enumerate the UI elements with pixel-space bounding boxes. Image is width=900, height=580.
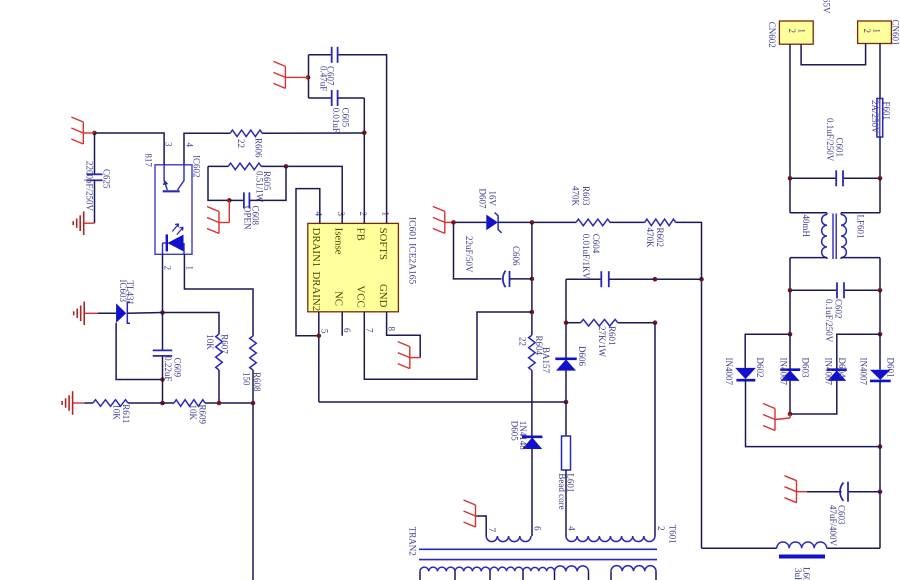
- svg-text:0.47uF: 0.47uF: [319, 66, 329, 91]
- wire VCC top rail: [454, 221, 487, 223]
- svg-text:47uF/400V: 47uF/400V: [828, 505, 838, 547]
- svg-text:SOFTS: SOFTS: [377, 228, 389, 260]
- diode D601 IN4007: [879, 334, 881, 370]
- svg-text:D603: D603: [801, 358, 811, 378]
- svg-text:8: 8: [387, 327, 397, 332]
- transformer T601 core: [419, 548, 657, 550]
- chassis ground VCC rail: [445, 221, 454, 223]
- wire T601 pin2 rail: [654, 323, 656, 536]
- svg-text:IN4007: IN4007: [779, 358, 789, 386]
- svg-text:CN601: CN601: [891, 20, 900, 46]
- svg-text:470K: 470K: [571, 186, 581, 207]
- diode D602 IN4007: [735, 368, 756, 379]
- wire D604 anode to primary ground node: [790, 381, 837, 414]
- svg-text:C609: C609: [173, 358, 183, 378]
- wire TL431 anode: [98, 312, 116, 314]
- wire pin4 DRAIN1: [296, 189, 320, 336]
- svg-text:3uH: 3uH: [793, 568, 803, 580]
- svg-text:1: 1: [872, 29, 882, 34]
- wire R602 to B+ rail: [676, 222, 702, 279]
- connector CN601: [858, 21, 892, 44]
- wire feedback down: [252, 403, 254, 580]
- diode D606 BA157: [555, 357, 576, 360]
- svg-text:R608: R608: [252, 372, 262, 392]
- svg-text:2: 2: [862, 29, 872, 34]
- svg-text:NC: NC: [332, 291, 344, 306]
- wire C604 left down to D606: [565, 279, 567, 359]
- inductor L602 3uH: [777, 542, 827, 548]
- capacitor C605: [309, 97, 332, 99]
- wire R605 left loop: [208, 166, 229, 200]
- svg-text:2: 2: [163, 266, 173, 271]
- svg-text:1: 1: [185, 266, 195, 271]
- svg-text:6: 6: [342, 328, 352, 333]
- svg-text:FB: FB: [355, 228, 367, 241]
- capacitor C601: [790, 177, 836, 179]
- svg-text:D604: D604: [837, 358, 847, 378]
- resistor R609 10K: [174, 400, 205, 407]
- svg-text:2: 2: [787, 29, 797, 34]
- svg-text:0.1uF/250V: 0.1uF/250V: [824, 299, 834, 343]
- capacitor C603 electrolytic: [848, 491, 880, 493]
- svg-text:DRAIN1: DRAIN1: [310, 228, 322, 268]
- resistor R606 22: [230, 130, 262, 137]
- svg-text:R607: R607: [220, 334, 230, 354]
- diode D605 1N4148: [522, 435, 542, 438]
- inductor LF601 common mode choke: [789, 178, 791, 213]
- svg-text:3: 3: [336, 212, 346, 217]
- svg-text:R603: R603: [581, 186, 591, 206]
- svg-text:0.1uF/250V: 0.1uF/250V: [825, 118, 835, 162]
- wire bridge top left branch: [745, 334, 790, 368]
- wire ref node down: [162, 380, 164, 404]
- capacitor C609 0.22uF: [162, 313, 164, 351]
- transformer T601 primary winding: [566, 536, 655, 542]
- svg-text:TL431: TL431: [125, 281, 135, 306]
- wire left rail CN602 pin2 down: [789, 44, 791, 178]
- svg-text:1N4148: 1N4148: [518, 421, 528, 450]
- svg-text:4: 4: [185, 143, 195, 148]
- svg-text:IC602: IC602: [192, 155, 202, 178]
- wire D606 anode to drain bus: [565, 371, 567, 402]
- capacitor C606 electrolytic 22uF/50V: [454, 222, 502, 279]
- diode D603 IN4007: [789, 334, 791, 370]
- resistor R604 22: [529, 335, 536, 370]
- svg-text:817: 817: [144, 153, 154, 167]
- svg-text:TRAN2: TRAN2: [408, 527, 418, 556]
- wire pin1 SOFTS: [338, 55, 387, 224]
- svg-text:65V: 65V: [822, 0, 832, 14]
- earth ground TL431: [84, 312, 98, 314]
- wire pin7 VCC: [364, 312, 532, 379]
- svg-text:R601: R601: [607, 326, 617, 346]
- wire B+ rail vertical: [701, 279, 703, 548]
- chassis ground C608: [228, 200, 230, 222]
- svg-text:1: 1: [797, 29, 807, 34]
- chassis ground bridge DC minus: [789, 414, 791, 418]
- wire right rail C603 to bottom: [879, 492, 881, 549]
- capacitor C625: [94, 133, 96, 174]
- optocoupler IC602 817 box: [155, 165, 192, 255]
- wire divider to R608: [219, 402, 253, 404]
- wire CN601 pin2 to CN602 pin1 jumper: [801, 44, 866, 65]
- svg-text:22: 22: [236, 139, 246, 148]
- svg-text:F601: F601: [882, 102, 892, 121]
- svg-text:470K: 470K: [645, 228, 655, 249]
- svg-text:10K: 10K: [112, 404, 122, 420]
- opto transistor: [163, 190, 180, 192]
- wire L602 to B+ rail: [702, 547, 777, 549]
- resistor R607 10K: [216, 334, 223, 370]
- wire opto pin4 to R606: [184, 133, 230, 165]
- svg-text:IN4007: IN4007: [824, 358, 834, 386]
- transformer T601 aux winding: [486, 536, 531, 542]
- shunt regulator IC603 TL431: [116, 303, 126, 322]
- svg-text:1: 1: [380, 212, 390, 217]
- svg-text:40mH: 40mH: [801, 215, 811, 238]
- svg-text:C606: C606: [511, 246, 521, 266]
- opto LED: [166, 234, 168, 251]
- svg-text:IC601 ICE2A165: IC601 ICE2A165: [407, 217, 417, 285]
- svg-text:0.01uF: 0.01uF: [331, 108, 341, 133]
- svg-text:27K/1W: 27K/1W: [597, 326, 607, 358]
- earth ground R611: [73, 402, 85, 404]
- chassis ground C603: [797, 491, 808, 493]
- svg-text:7: 7: [364, 328, 374, 333]
- wire secondary pins: [419, 571, 421, 580]
- wire opto pin3 net: [95, 133, 165, 165]
- wire VCC node vertical: [531, 222, 533, 335]
- svg-text:3: 3: [164, 142, 174, 147]
- chassis ground T601 pin7: [476, 515, 477, 517]
- svg-text:0.22uF: 0.22uF: [163, 356, 173, 381]
- svg-text:R604: R604: [534, 336, 544, 356]
- svg-text:Bead core: Bead core: [557, 473, 567, 509]
- opto light arrows: [172, 224, 178, 232]
- svg-text:LF601: LF601: [856, 215, 866, 239]
- wire TL431 ref: [116, 323, 162, 380]
- svg-text:D602: D602: [755, 358, 765, 378]
- svg-text:OPEN: OPEN: [243, 206, 253, 230]
- svg-text:2: 2: [656, 526, 666, 531]
- op-amp IC601 ICE2A165 box: [308, 223, 399, 311]
- svg-text:10K: 10K: [188, 405, 198, 421]
- wire T601 pin7: [477, 516, 487, 536]
- resistor R603 470K: [576, 219, 610, 226]
- resistor R602 470K: [645, 219, 676, 226]
- wire CN601 pin1 to fuse: [879, 44, 881, 99]
- svg-text:R606: R606: [254, 138, 264, 158]
- svg-text:7: 7: [487, 528, 497, 533]
- wire snubber node: [655, 278, 702, 280]
- earth ground C625: [84, 222, 95, 224]
- wire D602 cathode down to bottom rail: [746, 380, 881, 446]
- diode D604 IN4007: [827, 368, 847, 371]
- capacitor C607: [309, 54, 332, 56]
- wire opto pin2 to TL431 cathode: [162, 254, 164, 312]
- wire right rail F601 to C601: [879, 137, 881, 178]
- svg-text:IN4007: IN4007: [859, 358, 869, 386]
- wire cathode to R607: [163, 313, 220, 335]
- resistor R608 150: [250, 336, 257, 370]
- chassis ground C607: [297, 76, 308, 78]
- svg-text:2A/250V: 2A/250V: [870, 100, 880, 134]
- chassis ground opto: [83, 132, 94, 134]
- svg-text:22: 22: [517, 337, 527, 346]
- svg-text:R602: R602: [655, 228, 665, 248]
- svg-text:IN4007: IN4007: [724, 358, 734, 386]
- resistor R601 27K/1W: [581, 319, 618, 326]
- transformer T601 secondary windings: [420, 567, 455, 571]
- wire pin6 NC stub: [341, 312, 343, 336]
- svg-text:D601: D601: [886, 358, 896, 378]
- svg-text:6: 6: [533, 526, 543, 531]
- diode D607 zener 16V: [486, 215, 498, 231]
- svg-text:5: 5: [320, 329, 330, 334]
- wire bridge top right branch: [879, 290, 881, 334]
- svg-text:D606: D606: [577, 346, 587, 366]
- svg-text:CN602: CN602: [767, 22, 777, 48]
- svg-text:150: 150: [242, 372, 252, 386]
- svg-text:16V: 16V: [488, 191, 498, 207]
- svg-text:D607: D607: [478, 189, 488, 209]
- wire D605 anode to T601 pin6: [531, 449, 533, 536]
- inductor L601 bead core: [565, 402, 567, 436]
- wire drain bus: [319, 401, 566, 403]
- wire opto pin1 to R608: [184, 254, 253, 336]
- svg-text:0.51/1W: 0.51/1W: [255, 171, 265, 203]
- svg-text:GND: GND: [377, 284, 389, 308]
- svg-text:4: 4: [314, 212, 324, 217]
- svg-text:22uF/50V: 22uF/50V: [464, 236, 474, 273]
- wire pin3 Isense: [286, 166, 342, 223]
- wire R603 to R602: [610, 221, 645, 223]
- capacitor C608 OPEN: [229, 199, 244, 201]
- capacitor C604: [609, 278, 655, 280]
- wire pin2 FB: [363, 98, 365, 223]
- chassis ground IC601 GND: [410, 357, 420, 359]
- wire pin5 DRAIN2: [318, 312, 320, 402]
- svg-text:2200pF/250V: 2200pF/250V: [85, 161, 95, 212]
- svg-text:Isense: Isense: [332, 228, 344, 255]
- wire R604 to D605: [531, 370, 533, 436]
- resistor R605 0.51/1W: [228, 163, 261, 170]
- svg-text:0.01uF/1KV: 0.01uF/1KV: [581, 234, 591, 280]
- svg-text:2: 2: [358, 212, 368, 217]
- svg-text:T601: T601: [668, 525, 678, 544]
- svg-text:4: 4: [566, 526, 576, 531]
- wire pin8 GND: [387, 312, 421, 358]
- svg-text:C604: C604: [591, 234, 601, 254]
- svg-text:C625: C625: [102, 169, 112, 189]
- svg-text:DRAIN2: DRAIN2: [310, 272, 322, 312]
- wire right rail to C603: [879, 447, 881, 492]
- svg-text:10K: 10K: [205, 334, 215, 350]
- svg-text:C605: C605: [340, 108, 350, 128]
- wire bottom to inductor L602: [827, 547, 880, 549]
- wire TL431 cathode: [127, 312, 162, 315]
- wire softs left branch: [308, 55, 310, 98]
- svg-text:R609: R609: [198, 405, 208, 425]
- svg-text:VCC: VCC: [355, 286, 367, 308]
- connector CN602: [779, 21, 813, 44]
- wire left rail C602 to bridge: [789, 290, 791, 334]
- capacitor C602: [790, 289, 837, 291]
- resistor R611 10K: [85, 402, 94, 404]
- svg-text:C602: C602: [834, 299, 844, 319]
- fuse F601: [877, 99, 883, 138]
- wire D607 to R603: [498, 221, 576, 223]
